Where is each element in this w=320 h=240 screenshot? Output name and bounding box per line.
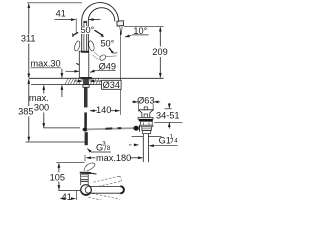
svg-text:max.180: max.180 <box>96 153 131 163</box>
waste valve body upper <box>140 121 152 125</box>
svg-text:34-51: 34-51 <box>156 111 180 121</box>
wire hose end reference line of max.300 <box>43 127 80 129</box>
pop-up rod dark segment <box>106 127 113 129</box>
waste valve plug top <box>139 110 154 118</box>
wire deck top line <box>29 77 164 79</box>
leader line of 10 degrees label with arrow <box>132 34 149 36</box>
waste valve gray band <box>140 125 153 127</box>
svg-text:140: 140 <box>96 105 111 115</box>
hatching right of faucet body <box>90 79 101 85</box>
dashed swivel spout upper <box>94 176 122 187</box>
waste valve rod bracket <box>139 125 141 131</box>
waste valve nut line <box>132 135 144 137</box>
rotation arc arrow right 50 <box>94 30 101 35</box>
centerline dash and arrow to pipe left wall <box>129 144 132 146</box>
small tick at body left <box>76 63 79 64</box>
side view lever dark blade <box>80 172 91 174</box>
svg-text:105: 105 <box>50 172 65 182</box>
svg-text:50°: 50° <box>100 38 114 48</box>
svg-text:Ø34: Ø34 <box>103 80 120 90</box>
lever tilted-right paddle loop <box>88 40 95 51</box>
dimension max.30 down arrow to deck top <box>61 69 63 78</box>
dimension max.300 up arrow to deck bottom <box>43 85 45 93</box>
side view pivot boss <box>81 185 92 196</box>
dimension 311 upper line with up arrow <box>28 4 30 35</box>
dimension 385 upper line with up arrow below deck <box>28 79 30 106</box>
side view lever raised outline <box>84 163 95 171</box>
waste valve body ticks <box>142 122 144 125</box>
leader arrow of diameter 49 to body edge <box>90 71 95 73</box>
basin top stub line at 34-51 <box>165 108 172 110</box>
side view spout bar <box>89 186 124 193</box>
arrow pointing right at body left edge <box>66 70 80 72</box>
waste valve rod ball joint <box>134 126 139 131</box>
leader line from diameter 34 box with left arrow at hole right edge <box>89 80 101 82</box>
dimension max.30 up arrow to deck bottom <box>61 85 63 97</box>
waste valve lift knob <box>144 107 147 110</box>
label 50 deg first <box>80 26 95 34</box>
waste valve tail pipe <box>142 134 144 163</box>
svg-text:max.30: max.30 <box>31 59 61 69</box>
dimension 41 left line with right arrow <box>54 19 75 21</box>
dimension 140 left arrow to faucet axis <box>90 110 97 112</box>
mousseur at spout outlet <box>117 21 124 26</box>
svg-text:311: 311 <box>21 33 36 43</box>
threaded stud dark <box>84 87 88 107</box>
lever upright stem lines <box>83 21 85 51</box>
waste valve flange plate <box>138 117 153 119</box>
dimension 41 right line with left arrow <box>89 19 100 21</box>
svg-text:50°: 50° <box>80 25 94 35</box>
lever open-position blade lines lower right <box>94 52 100 57</box>
dimension 105 down arrow <box>58 182 60 190</box>
wire top extension line of faucet height <box>27 2 82 4</box>
dimension 209 upper line with up arrow <box>159 27 161 46</box>
dimension max.180 right arrow to waste pipe <box>130 157 143 159</box>
faucet body outline <box>79 51 89 78</box>
leader line of G1 1/4 with arrow to pipe <box>151 145 177 147</box>
arrow pointing right at hole left edge for diameter 34 <box>74 80 83 82</box>
side view body dark ring <box>80 179 88 181</box>
rotation arc arrow below second 50 <box>109 48 112 52</box>
dashed swivel spout lower <box>89 193 121 200</box>
extension line at handle front for 41 <box>75 18 77 33</box>
leader line of G3/8 with arrow to hose end <box>91 151 111 153</box>
diameter 34 label box <box>102 80 122 89</box>
basin bottom line <box>154 121 182 123</box>
svg-text:209: 209 <box>152 47 167 57</box>
supply hose G3/8 end <box>85 132 88 145</box>
water stream wedge line left <box>120 26 121 35</box>
leader underline of diameter 49 <box>95 70 116 72</box>
side view pivot boss inner circle <box>85 187 88 194</box>
lever tilted-left paddle loop <box>74 40 81 51</box>
dimension max.30 underline <box>31 67 62 69</box>
spout outer arc <box>82 3 119 52</box>
wire extension line from mousseur to 209 dim <box>124 25 164 27</box>
threaded shank below body <box>84 79 89 85</box>
ball joint at rod bottom <box>83 128 88 132</box>
waste valve plug inner lift <box>144 114 147 117</box>
wire deck bottom line <box>31 84 101 86</box>
svg-text:10°: 10° <box>133 26 147 36</box>
extension line from spout outlet down to 140 dim <box>119 31 121 115</box>
dimension 105 up arrow <box>58 163 60 172</box>
dimension 140 right arrow to spout axis <box>111 110 120 112</box>
dimension 34-51 up arrow <box>168 123 170 129</box>
wire bottom reference line of 385 <box>26 141 85 143</box>
dimension max.300 down arrow <box>43 113 45 128</box>
mounting nut <box>83 85 89 88</box>
pull rod below stud <box>84 112 87 127</box>
waste valve body lower <box>143 130 151 133</box>
svg-text:41: 41 <box>62 192 72 200</box>
rotation arc arrow left 50 <box>73 32 78 35</box>
svg-text:300: 300 <box>34 102 49 112</box>
waste valve body middle <box>142 127 152 131</box>
lever upright top cap <box>84 21 87 23</box>
svg-text:41: 41 <box>56 8 66 18</box>
side view body outline <box>81 174 89 185</box>
extension line for bottom 41 <box>75 191 77 200</box>
lever open-position paddle loop <box>99 54 107 62</box>
waste valve black seal band <box>139 119 153 121</box>
water stream wedge line right <box>120 26 123 35</box>
hatching left of faucet body <box>65 79 80 85</box>
side view top extension line <box>56 161 84 163</box>
bottom 41 arrows <box>60 198 63 200</box>
lever open-position line to right <box>106 55 117 58</box>
faucet body top dark edge <box>81 51 89 53</box>
side view deck line <box>58 189 81 191</box>
waste valve: diameter 63 extension lines <box>138 104 140 112</box>
svg-text:Ø63: Ø63 <box>137 96 154 106</box>
faucet base ring dark band <box>81 77 93 79</box>
dimension 311 lower line with down arrow at deck <box>28 44 30 79</box>
dimension 209 lower line with down arrow <box>159 57 161 78</box>
svg-text:4: 4 <box>174 137 178 144</box>
waste valve: diameter 63 arrows <box>132 101 138 103</box>
pop-up rod to waste valve <box>87 128 134 129</box>
spout inner arc <box>88 8 115 52</box>
dimension 34-51 down arrow <box>168 103 170 108</box>
svg-text:385: 385 <box>18 106 33 116</box>
svg-text:Ø49: Ø49 <box>99 61 116 71</box>
extension line left for max.180 <box>84 155 86 162</box>
dimension max.180 left arrow <box>86 157 95 159</box>
svg-text:8: 8 <box>107 145 111 152</box>
dimension 385 lower line with down arrow <box>28 117 30 142</box>
side view spout bar dark end cap <box>120 186 124 193</box>
